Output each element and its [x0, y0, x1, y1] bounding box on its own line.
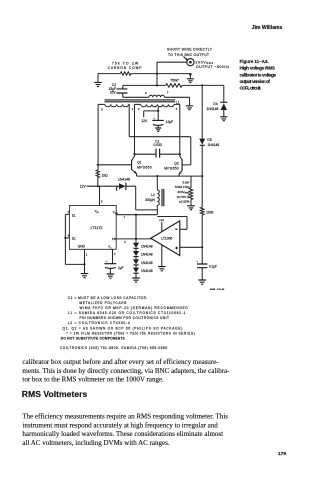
wire VC pin 2 — [112, 249, 114, 263]
svg-text:5: 5 — [101, 199, 103, 203]
ground (10uF) — [155, 128, 161, 131]
svg-text:output version of: output version of — [240, 79, 271, 84]
svg-text:ments. This is done by directl: ments. This is done by directly connecti… — [22, 367, 230, 375]
svg-text:35V: 35V — [110, 90, 117, 94]
wire plus input to divider — [180, 246, 202, 248]
wire L1 pin5 lead down to base drive node — [97, 104, 99, 169]
node (E2 loop) — [64, 237, 66, 239]
svg-text:0.1μF: 0.1μF — [209, 265, 217, 269]
svg-text:L2 = COILTRONICS CTX300-4: L2 = COILTRONICS CTX300-4 — [68, 321, 130, 325]
node (center tap 12V rail) — [157, 110, 159, 112]
svg-text:0.033: 0.033 — [153, 143, 161, 147]
svg-text:The efficiency measurements re: The efficiency measurements require an R… — [22, 413, 228, 421]
node (divider junction) — [201, 175, 203, 177]
svg-text:Q1, Q2 = AS SHOWN OR BCP 56 (P: Q1, Q2 = AS SHOWN OR BCP 56 (PHILIPS SO … — [63, 326, 183, 330]
svg-text:1kΩ: 1kΩ — [102, 174, 109, 178]
svg-text:1N4148: 1N4148 — [141, 253, 153, 257]
pin E2 stub / pin 8 — [65, 237, 69, 239]
wire center tap — [157, 107, 159, 111]
svg-text:1N4148: 1N4148 — [207, 107, 219, 111]
schematic notes — [60, 296, 195, 350]
inductor L2 300uH — [156, 176, 158, 190]
diode D5 1N4148 — [201, 85, 203, 138]
ground (top left, output return) — [97, 74, 99, 83]
transistor Q1 MPS650 — [132, 154, 135, 160]
ground (0.1uF) — [198, 280, 206, 284]
svg-text:L1: L1 — [176, 100, 180, 104]
diode string D9 1N4148 — [135, 265, 137, 268]
capacitor C1 0.033 (resonant) — [135, 153, 180, 155]
ground (diode string) — [135, 273, 137, 278]
svg-text:L2: L2 — [151, 193, 155, 197]
ground (5.6k trim) — [187, 206, 195, 210]
ground (D4) — [220, 117, 227, 121]
plus input sign — [175, 247, 177, 249]
svg-text:Jim Williams: Jim Williams — [252, 25, 283, 31]
svg-text:GND: GND — [78, 245, 86, 249]
svg-text:1: 1 — [132, 107, 134, 111]
svg-text:OUTPUT ~600Hz: OUTPUT ~600Hz — [196, 65, 229, 69]
ground (LT1172 GND) — [84, 264, 86, 273]
svg-text:instrument must respond accura: instrument must respond accurately at hi… — [22, 421, 218, 429]
node (output line junction) — [156, 84, 158, 86]
svg-text:PIN NUMBERS SHOWN FOR COILTRON: PIN NUMBERS SHOWN FOR COILTRONICS UNIT — [80, 316, 169, 320]
svg-text:Q2: Q2 — [174, 161, 179, 165]
body paragraph 1 — [22, 358, 230, 384]
svg-text:LT1172: LT1172 — [91, 226, 103, 230]
svg-text:DO NOT SUBSTITUTE COMPONENTS: DO NOT SUBSTITUTE COMPONENTS — [61, 336, 125, 340]
node (L2 tap) — [156, 175, 158, 177]
wire L1 pin2 lead down to C1/Q1 — [134, 104, 136, 154]
svg-text:CCFL circuit.: CCFL circuit. — [240, 86, 262, 91]
svg-text:OUTPUT: OUTPUT — [177, 195, 190, 199]
diode string D6 1N4148 — [135, 239, 137, 243]
wire 75k to BNC shield ground — [131, 73, 191, 75]
transformer L1 feedback winding (pins 9-7) — [123, 96, 149, 98]
wire from top-left ground to 75k resistor — [98, 73, 120, 75]
svg-text:E2: E2 — [72, 236, 76, 240]
op-amp U2 LT1006 (points left) — [151, 221, 180, 256]
svg-text:D5: D5 — [207, 138, 211, 142]
svg-text:1N4148: 1N4148 — [118, 178, 130, 182]
svg-text:RMS Voltmeters: RMS Voltmeters — [22, 389, 88, 399]
resistor 1k — [96, 170, 99, 178]
svg-text:High voltage RMS: High voltage RMS — [240, 66, 275, 71]
svg-text:1N4148: 1N4148 — [141, 244, 153, 248]
pin E1 stub / pin 6 — [65, 213, 69, 215]
capacitor 0.1uF (divider filter) — [201, 247, 203, 264]
svg-text:+: + — [106, 259, 108, 263]
wire FB pin 3 — [116, 238, 151, 240]
svg-text:L1 = SUMIDA 6345-020 OR COILTR: L1 = SUMIDA 6345-020 OR COILTRONICS CTX1… — [68, 311, 186, 315]
svg-text:* = 1% FILM RESISTOR (750k = T: * = 1% FILM RESISTOR (750k = TEN 75k RES… — [67, 331, 195, 335]
svg-text:750k*: 750k* — [170, 79, 179, 83]
wire V- to ground — [161, 245, 163, 267]
svg-text:MPS650: MPS650 — [137, 166, 152, 170]
svg-text:AN49 • F11-A3: AN49 • F11-A3 — [210, 288, 225, 291]
node (FB / diode string) — [135, 238, 137, 240]
wire main output run (y=85.4) — [123, 84, 224, 86]
svg-text:WIMA FKP2 OR MKP-20 (GERMAN) R: WIMA FKP2 OR MKP-20 (GERMAN) RECOMMENDED — [80, 306, 189, 310]
wire E1/E2 loop to ground run — [65, 214, 84, 264]
node (VSW link) — [135, 214, 137, 216]
node (C1 right / Q2 collector) — [179, 153, 181, 155]
wire to D4 — [223, 85, 225, 102]
svg-text:2: 2 — [138, 107, 140, 111]
svg-text:calibrator is voltage: calibrator is voltage — [240, 72, 277, 77]
resistor 75k TO 2W CARBON COMP — [120, 72, 131, 75]
wire BNC to vertical — [157, 61, 187, 63]
wire 12V feed — [144, 111, 159, 117]
svg-text:harmonically loaded waveforms.: harmonically loaded waveforms. These con… — [22, 430, 223, 438]
svg-text:LT1006: LT1006 — [161, 236, 172, 240]
svg-text:TRIM FOR: TRIM FOR — [175, 185, 191, 189]
svg-text:75k TO 2W: 75k TO 2W — [112, 61, 139, 65]
svg-text:9: 9 — [145, 91, 147, 95]
diode D4 1N4148 — [220, 101, 227, 103]
wire L1 pin1 to Q2 base loop — [129, 104, 191, 164]
wire emitter rail (y=176.1) — [137, 175, 203, 177]
svg-text:+: + — [196, 260, 198, 264]
svg-text:E1: E1 — [72, 214, 76, 218]
svg-text:CARBON COMP: CARBON COMP — [108, 66, 143, 70]
svg-text:12V: 12V — [80, 185, 87, 189]
svg-text:Figure 11–A3.: Figure 11–A3. — [240, 59, 269, 64]
svg-text:calibrator box output before a: calibrator box output before and after e… — [22, 358, 219, 366]
svg-text:2: 2 — [114, 252, 116, 256]
svg-text:METALIZED POLYCARB: METALIZED POLYCARB — [80, 301, 127, 305]
node (divider tap to D5 rail) — [201, 84, 203, 86]
svg-text:Q1: Q1 — [137, 161, 142, 165]
wire VIN pin 5 — [99, 186, 101, 205]
resistor 100k — [200, 207, 204, 215]
svg-text:1N4148: 1N4148 — [207, 143, 219, 147]
BNC output connector — [187, 59, 194, 66]
wire VSW-FB vertical link — [135, 215, 137, 239]
svg-text:COILTRONICS (305) 781-8900, SU: COILTRONICS (305) 781-8900, SUMIDA (708)… — [60, 346, 167, 350]
node (C1 left / Q1 collector) — [133, 153, 135, 155]
diode string D8 1N4148 — [135, 257, 137, 260]
wire VSW pin 7 — [116, 214, 157, 216]
node (12V rail) — [97, 185, 99, 187]
ground (L1 pin 7) — [186, 106, 193, 110]
svg-text:SHORT WIRE DIRECTLY: SHORT WIRE DIRECTLY — [167, 48, 213, 52]
svg-text:10μF: 10μF — [166, 120, 173, 124]
capacitor C2 15uF 35V — [122, 85, 124, 97]
transistor Q2 MPS650 — [180, 154, 183, 160]
svg-text:FB: FB — [112, 237, 116, 241]
svg-text:±0.25%: ±0.25% — [179, 200, 190, 204]
capacitor 10uF (center tap bypass) — [157, 111, 159, 121]
diode string D7 1N4148 — [135, 248, 137, 251]
svg-text:1μF: 1μF — [118, 266, 124, 270]
node (ground bus) — [83, 263, 85, 265]
svg-text:5.6k*: 5.6k* — [182, 180, 190, 184]
svg-text:1N4148: 1N4148 — [141, 261, 153, 265]
wire BNC vertical drop — [156, 62, 158, 85]
wire L1 pin4 lead down to C1/Q2 — [179, 104, 181, 154]
ground (VC cap) — [107, 274, 115, 278]
svg-text:D4: D4 — [213, 102, 217, 106]
svg-text:4: 4 — [176, 107, 178, 111]
wire GND pin 1 — [84, 249, 86, 264]
ground (LT1006 V-) — [158, 267, 166, 271]
resistor 5.6k* trim — [190, 176, 192, 188]
svg-text:+12: +12 — [159, 218, 164, 222]
transformer L1 primary right with center tap (pins 2-4) — [134, 103, 140, 105]
minus input sign — [175, 228, 177, 230]
svg-text:+: + — [153, 116, 155, 120]
resistor 750k* — [166, 84, 182, 88]
svg-text:C1 = MUST BE A LOW LOSS CAPACI: C1 = MUST BE A LOW LOSS CAPACITOR. — [68, 296, 148, 300]
svg-text:5: 5 — [101, 108, 103, 112]
node (divider to + input) — [201, 246, 203, 248]
svg-text:179: 179 — [278, 451, 286, 457]
node (Q1 base drive) — [97, 164, 99, 166]
svg-text:100k: 100k — [206, 211, 214, 215]
wire feedback loop (output to minus input) — [157, 217, 187, 230]
svg-text:1N4148: 1N4148 — [141, 269, 153, 273]
svg-text:1: 1 — [86, 253, 88, 257]
svg-text:MPS650: MPS650 — [164, 167, 179, 171]
body paragraph 2 — [22, 413, 228, 447]
diode 1N4148 (12V to VSW) — [119, 183, 126, 189]
node (75k / BNC column) — [156, 73, 158, 75]
ground (BNC shield) — [189, 73, 192, 76]
svg-text:tor box to the RMS voltmeter o: tor box to the RMS voltmeter on the 1000… — [22, 376, 164, 384]
transformer L1 primary left (pins 5-1) — [98, 103, 105, 105]
svg-text:300μH: 300μH — [145, 198, 155, 202]
svg-text:TO THIS BNC OUTPUT: TO THIS BNC OUTPUT — [168, 53, 209, 57]
op-amp/regulator U1 LT1172 — [69, 206, 116, 250]
svg-text:7: 7 — [123, 216, 125, 220]
svg-text:3: 3 — [124, 240, 126, 244]
transformer L1 core — [105, 100, 176, 102]
svg-text:7: 7 — [167, 91, 169, 95]
figure caption — [240, 59, 277, 90]
svg-text:12V: 12V — [141, 119, 148, 123]
svg-text:all AC voltmeters, including D: all AC voltmeters, including DVMs with A… — [22, 439, 169, 447]
